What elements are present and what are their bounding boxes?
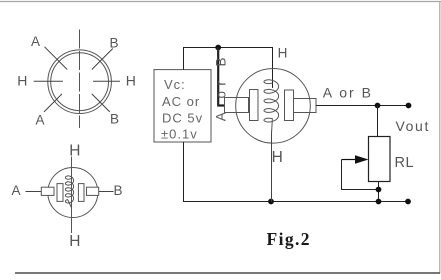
svg-text:DC 5v: DC 5v: [162, 110, 203, 125]
svg-text:AC or: AC or: [162, 94, 200, 109]
svg-text:B: B: [110, 35, 119, 50]
svg-text:H: H: [278, 45, 288, 60]
svg-text:±0.1v: ±0.1v: [161, 127, 198, 142]
svg-text:A: A: [12, 183, 21, 198]
svg-text:Vout: Vout: [396, 118, 430, 134]
svg-text:RL: RL: [395, 155, 415, 171]
svg-text:H: H: [126, 73, 136, 89]
svg-text:Fig.2: Fig.2: [267, 229, 311, 249]
svg-text:H: H: [272, 149, 283, 166]
svg-text:B: B: [110, 112, 119, 127]
svg-text:A: A: [36, 112, 45, 127]
svg-text:H: H: [69, 233, 80, 250]
svg-text:Vc:: Vc:: [164, 77, 186, 92]
svg-text:A: A: [31, 34, 40, 49]
svg-text:H: H: [69, 143, 80, 160]
svg-text:A or B: A or B: [213, 52, 228, 121]
svg-text:A or B: A or B: [323, 85, 373, 101]
svg-text:B: B: [114, 183, 123, 198]
svg-text:H: H: [17, 73, 27, 89]
